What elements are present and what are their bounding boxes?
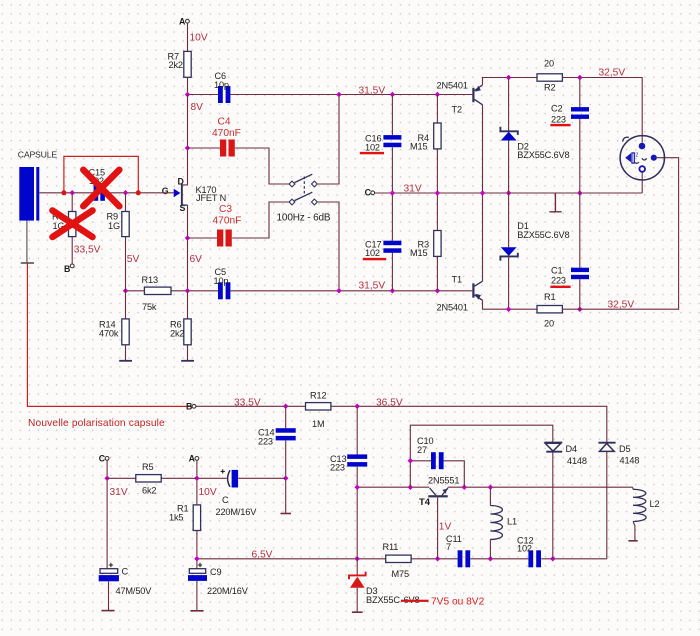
wire R2 to 32,5V corner and XLR pin2 top — [562, 78, 642, 143]
red X over C15 — [83, 170, 119, 206]
resistor R13 — [142, 275, 172, 312]
wire 36,5V rail to D5 corner — [331, 406, 607, 442]
svg-text:220M/16V: 220M/16V — [216, 507, 258, 517]
svg-text:8V: 8V — [191, 102, 204, 113]
resistor R5 6k2 — [107, 462, 197, 496]
transistor T1 2N5401 — [437, 274, 483, 312]
wire C4 branch — [188, 148, 290, 184]
svg-text:33,5V: 33,5V — [74, 244, 101, 255]
svg-text:102: 102 — [365, 248, 380, 258]
transistor T2 2N5401 — [437, 80, 483, 114]
svg-text:D5: D5 — [619, 444, 630, 454]
wire XLR pin1 to mid rail — [641, 172, 643, 193]
resistor R3 M15 — [410, 193, 441, 291]
junction C14/C wire — [283, 476, 289, 482]
svg-text:C: C — [122, 566, 129, 576]
svg-text:4148: 4148 — [567, 456, 587, 466]
wire inner feedback box — [410, 425, 553, 487]
capsule (microphone capsule) — [18, 150, 58, 221]
svg-text:223: 223 — [330, 462, 345, 472]
capacitor C15 (crossed out) — [89, 168, 105, 201]
svg-text:M15: M15 — [410, 248, 427, 258]
svg-text:2N5401: 2N5401 — [437, 302, 468, 312]
svg-text:B: B — [186, 401, 192, 411]
diode D5 4148 — [598, 443, 639, 559]
old ground tick — [21, 262, 34, 264]
svg-text:G: G — [162, 186, 169, 196]
ground under R6 — [181, 360, 194, 362]
resistor R7 — [168, 51, 192, 77]
junctions bottom output rail — [506, 306, 583, 312]
transistor T4 2N5551 — [419, 476, 459, 509]
junctions on mid line — [354, 484, 493, 490]
resistor R9 1G — [107, 193, 130, 291]
svg-text:2k2: 2k2 — [170, 328, 184, 338]
wire bottom 31,5V rail — [126, 290, 473, 292]
svg-text:6,5V: 6,5V — [252, 549, 273, 560]
svg-text:10p: 10p — [214, 80, 229, 90]
red X over R8 — [53, 211, 93, 238]
capacitor C2 223 — [550, 78, 589, 194]
inductor L2 — [628, 487, 659, 541]
svg-text:R11: R11 — [383, 542, 399, 552]
svg-text:CAPSULE: CAPSULE — [18, 150, 58, 160]
svg-text:JFET N: JFET N — [196, 193, 226, 203]
svg-text:1V: 1V — [439, 522, 452, 533]
wire A to R7 — [187, 23, 189, 51]
junctions on bottom rail — [123, 288, 440, 294]
svg-text:223: 223 — [551, 276, 566, 286]
svg-text:2N5551: 2N5551 — [428, 476, 459, 486]
wire C3 branch — [188, 202, 290, 238]
svg-text:T1: T1 — [452, 274, 462, 284]
junctions at collector rail — [506, 75, 583, 81]
svg-text:BZX55C.6V8: BZX55C.6V8 — [517, 150, 569, 160]
capacitor C16 102 — [360, 95, 402, 194]
capacitor C11 7 — [446, 534, 470, 568]
wire R7 to 8V node — [187, 77, 189, 94]
svg-text:C4: C4 — [218, 117, 231, 128]
svg-text:10V: 10V — [190, 33, 208, 44]
svg-text:20: 20 — [544, 319, 554, 329]
wire T4 base down to 6,5V rail — [437, 497, 439, 558]
svg-text:7V5 ou 8V2: 7V5 ou 8V2 — [431, 597, 485, 608]
junction drain/C4 — [185, 145, 191, 151]
svg-text:C: C — [99, 453, 106, 463]
svg-text:100Hz - 6dB: 100Hz - 6dB — [277, 213, 331, 224]
svg-text:20: 20 — [544, 59, 554, 69]
wire B to R12 — [196, 405, 305, 407]
svg-text:C1: C1 — [551, 266, 562, 276]
junctions on top rail — [185, 92, 440, 98]
svg-text:R2: R2 — [544, 83, 555, 93]
wire C down to cap — [106, 461, 108, 569]
junctions on 33,5/36,5V rail — [283, 404, 360, 410]
capacitor C electrolytic 220M/16V — [197, 469, 286, 517]
resistor R4 M15 — [410, 95, 441, 194]
capacitor C electrolytic 47M/50V — [99, 563, 153, 611]
svg-text:47M/50V: 47M/50V — [116, 586, 153, 596]
capacitor C10 27 — [410, 436, 464, 487]
wire 6,5V rail — [197, 558, 607, 560]
svg-text:2: 2 — [635, 152, 638, 158]
node B (left terminal) — [64, 264, 74, 274]
zener D2 BZX55C 6V8 — [500, 78, 569, 194]
svg-text:Nouvelle polarisation capsule: Nouvelle polarisation capsule — [28, 418, 165, 429]
svg-text:220M/16V: 220M/16V — [207, 586, 249, 596]
resistor R8 1G (crossed out) — [52, 193, 76, 264]
node C (bottom terminal) — [99, 453, 109, 463]
svg-text:470k: 470k — [99, 328, 119, 338]
capacitor C14 223 — [258, 406, 296, 513]
wire capsule lower plate down — [26, 221, 28, 263]
wire oscillator mid line — [357, 486, 632, 488]
svg-text:75k: 75k — [142, 302, 157, 312]
svg-text:223: 223 — [258, 436, 273, 446]
XLR connector J1 — [620, 136, 664, 180]
capacitor C12 102 — [517, 535, 541, 567]
svg-text:L1: L1 — [507, 516, 517, 526]
svg-text:C3: C3 — [219, 204, 232, 215]
capacitor C4 (red, 470nF) — [212, 117, 241, 157]
svg-text:R13: R13 — [142, 275, 158, 285]
resistor R14 — [99, 291, 129, 360]
svg-text:T2: T2 — [452, 105, 462, 115]
junction source/C3 — [185, 235, 191, 241]
junction C10 left — [408, 458, 414, 464]
svg-text:32,5V: 32,5V — [599, 67, 626, 78]
svg-text:470nF: 470nF — [212, 128, 241, 139]
svg-text:R12: R12 — [310, 390, 326, 400]
junction A wire — [194, 476, 200, 482]
svg-text:T4: T4 — [419, 497, 431, 508]
svg-text:7: 7 — [446, 542, 451, 552]
svg-text:C: C — [222, 495, 229, 505]
svg-text:L2: L2 — [650, 499, 660, 509]
zener D1 BZX55C 6V8 — [500, 193, 569, 309]
svg-text:A: A — [179, 16, 186, 26]
red bypass wire over C15 — [64, 156, 138, 190]
svg-text:6V: 6V — [190, 254, 203, 265]
svg-text:223: 223 — [551, 114, 566, 124]
wire 8V node to C6 — [188, 94, 219, 96]
svg-text:470nF: 470nF — [213, 215, 242, 226]
svg-text:1G: 1G — [108, 221, 120, 231]
svg-text:27: 27 — [417, 445, 427, 455]
svg-text:D: D — [178, 177, 184, 187]
red solder dots — [61, 190, 140, 195]
wire A down through R1 — [196, 461, 198, 505]
svg-text:R9: R9 — [107, 211, 118, 221]
resistor R1 20 — [537, 292, 562, 329]
node A (bottom terminal) — [189, 453, 199, 463]
switch SW1 100Hz -6dB — [277, 174, 331, 223]
ground stub under C14 — [281, 513, 292, 515]
node A (top terminal) — [179, 16, 189, 26]
node B (bottom terminal) — [186, 401, 196, 411]
svg-text:31,5V: 31,5V — [359, 280, 386, 291]
resistor R1 1k5 (bottom) — [169, 503, 201, 530]
svg-text:31V: 31V — [404, 183, 422, 194]
svg-text:31V: 31V — [110, 487, 128, 498]
junctions on 6,5V rail — [194, 556, 555, 562]
capacitor C1 223 — [550, 193, 589, 309]
svg-text:C9: C9 — [210, 567, 221, 577]
wire switch right side to rails — [317, 95, 339, 291]
node C (mid terminal) — [365, 188, 375, 198]
svg-text:4148: 4148 — [620, 455, 640, 465]
svg-text:BZX55C.6V8: BZX55C.6V8 — [517, 230, 569, 240]
svg-text:C: C — [365, 188, 372, 198]
wire T1 collector down to R1 rail — [483, 300, 538, 309]
resistor R6 — [170, 291, 191, 360]
wire source down — [187, 205, 189, 291]
svg-text:BZX55C: BZX55C — [366, 595, 400, 605]
svg-text:D4: D4 — [566, 444, 577, 454]
ground under R14 — [119, 360, 132, 362]
capacitor C5 — [214, 267, 231, 299]
svg-text:M75: M75 — [392, 569, 409, 579]
svg-text:2N5401: 2N5401 — [437, 80, 468, 90]
wire drain node down to JFET — [183, 95, 188, 185]
wire 31,5V top rail — [230, 94, 472, 96]
capacitor C9 electrolytic 220M/16V — [188, 559, 249, 611]
svg-text:A: A — [189, 453, 196, 463]
wire T2 emitter up to R2 rail — [483, 78, 538, 85]
capacitor C3 (red, 470nF) — [213, 204, 242, 247]
svg-text:10V: 10V — [199, 487, 217, 498]
svg-text:2k2: 2k2 — [169, 60, 183, 70]
junctions on capsule wire — [69, 190, 128, 196]
svg-text:B: B — [64, 264, 70, 274]
capacitor C6 — [214, 71, 230, 103]
wire gate from capsule line — [39, 192, 173, 194]
svg-text:6k2: 6k2 — [142, 486, 156, 496]
svg-text:1M: 1M — [312, 419, 324, 429]
ground stub near XLR — [549, 193, 561, 212]
zener D3 (red) — [349, 559, 485, 612]
inductor L1 — [490, 487, 517, 559]
svg-text:M15: M15 — [410, 142, 427, 152]
wire R1 to 6,5V rail — [196, 531, 198, 559]
junctions on mid rail — [390, 190, 583, 196]
diode D4 4148 — [544, 443, 586, 559]
svg-text:10p: 10p — [214, 276, 229, 286]
svg-text:102: 102 — [365, 142, 380, 152]
capacitor C13 223 — [330, 406, 367, 559]
wire R1 to 32,5V and XLR pin3 — [562, 158, 678, 310]
svg-text:31,5V: 31,5V — [359, 85, 386, 96]
junction C/R5 — [104, 476, 110, 482]
svg-text:36,5V: 36,5V — [376, 397, 403, 408]
svg-text:1k5: 1k5 — [169, 512, 183, 522]
resistor R11 M75 — [383, 542, 412, 579]
capacitor C17 102 — [363, 193, 402, 291]
JFET U1 K170 — [162, 177, 226, 213]
wire 31V mid rail — [375, 192, 642, 194]
svg-text:32,5V: 32,5V — [608, 299, 635, 310]
resistor R12 1M — [306, 390, 331, 429]
svg-text:R1: R1 — [544, 292, 555, 302]
svg-text:102: 102 — [517, 544, 532, 554]
wire new polarisation (red) down left side to node B — [27, 263, 191, 406]
svg-text:R5: R5 — [142, 462, 153, 472]
resistor R2 20 — [537, 59, 562, 93]
svg-text:5V: 5V — [127, 254, 140, 265]
svg-text:C2: C2 — [551, 103, 562, 113]
wire T2 collector down to T1 emitter — [482, 105, 484, 281]
